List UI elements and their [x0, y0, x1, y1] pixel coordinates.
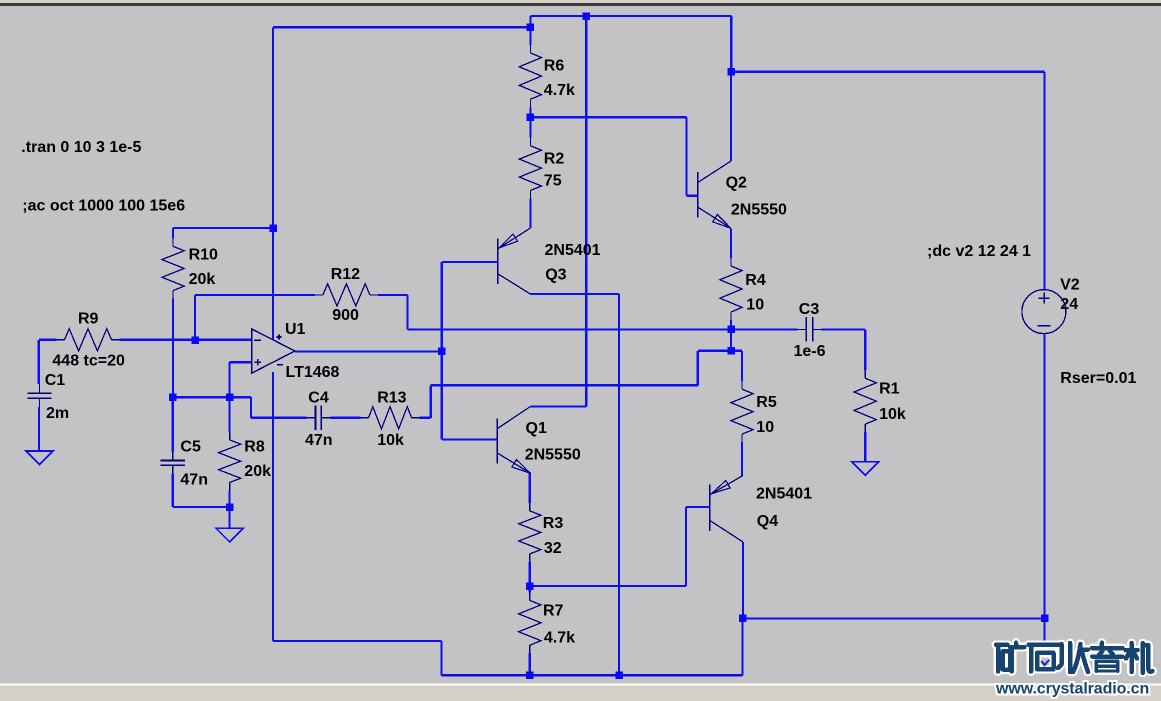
svg-text:10k: 10k: [377, 432, 404, 449]
svg-text:2N5550: 2N5550: [731, 201, 787, 218]
svg-text:;ac oct 1000 100 15e6: ;ac oct 1000 100 15e6: [22, 198, 185, 215]
svg-text:24: 24: [1060, 296, 1078, 313]
svg-text:C3: C3: [799, 301, 820, 318]
svg-text:Q2: Q2: [726, 175, 747, 192]
svg-text:.tran 0 10 3 1e-5: .tran 0 10 3 1e-5: [21, 139, 141, 156]
svg-text:10: 10: [756, 419, 774, 436]
svg-text:10k: 10k: [879, 406, 906, 423]
svg-text:2N5550: 2N5550: [525, 447, 581, 464]
svg-text:;dc v2 12 24 1: ;dc v2 12 24 1: [927, 243, 1031, 260]
svg-text:2N5401: 2N5401: [756, 486, 812, 503]
svg-text:R9: R9: [78, 311, 99, 328]
svg-text:Q1: Q1: [526, 420, 547, 437]
svg-text:4.7k: 4.7k: [544, 630, 575, 647]
svg-text:U1: U1: [285, 321, 306, 338]
svg-text:R10: R10: [189, 247, 218, 264]
svg-text:Q4: Q4: [757, 513, 778, 530]
svg-text:R7: R7: [543, 603, 564, 620]
svg-text:20k: 20k: [189, 271, 216, 288]
svg-text:Q3: Q3: [545, 267, 566, 284]
svg-text:32: 32: [544, 540, 562, 557]
svg-text:1e-6: 1e-6: [794, 343, 826, 360]
svg-text:900: 900: [332, 307, 359, 324]
svg-text:R3: R3: [543, 515, 564, 532]
svg-text:47n: 47n: [305, 432, 333, 449]
svg-text:R4: R4: [745, 272, 766, 289]
svg-text:R12: R12: [331, 266, 360, 283]
svg-text:2N5401: 2N5401: [545, 242, 601, 259]
svg-text:C1: C1: [45, 372, 66, 389]
svg-text:R1: R1: [879, 380, 900, 397]
svg-text:R8: R8: [244, 439, 265, 456]
svg-text:R5: R5: [756, 394, 777, 411]
svg-text:448 tc=20: 448 tc=20: [52, 353, 125, 370]
svg-text:2m: 2m: [46, 405, 69, 422]
svg-text:10: 10: [746, 297, 764, 314]
svg-text:C4: C4: [308, 389, 329, 406]
svg-text:R2: R2: [544, 150, 565, 167]
svg-text:R6: R6: [544, 58, 565, 75]
svg-text:V2: V2: [1060, 276, 1080, 293]
svg-text:R13: R13: [377, 389, 406, 406]
svg-text:47n: 47n: [180, 471, 208, 488]
svg-text:www.crystalradio.cn: www.crystalradio.cn: [995, 681, 1149, 698]
svg-text:20k: 20k: [244, 463, 271, 480]
svg-text:4.7k: 4.7k: [544, 82, 575, 99]
svg-text:LT1468: LT1468: [286, 364, 340, 381]
svg-text:Rser=0.01: Rser=0.01: [1060, 370, 1136, 387]
svg-text:75: 75: [544, 173, 562, 190]
svg-text:C5: C5: [180, 439, 201, 456]
